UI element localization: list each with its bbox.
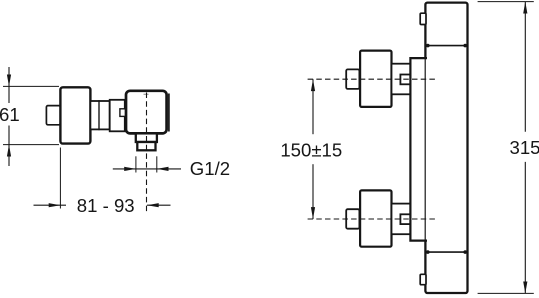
front housing strip bbox=[410, 58, 427, 241]
dimension 61 arrow down bbox=[7, 75, 11, 87]
G1/2 dimension line bbox=[113, 168, 181, 170]
bottom handle center line (dashed) bbox=[308, 218, 437, 220]
315 extension line bottom bbox=[478, 292, 534, 294]
G1/2 arrow left bbox=[157, 167, 169, 171]
bottom handle knob bbox=[346, 209, 359, 229]
svg-text:61: 61 bbox=[0, 104, 20, 125]
notch on valve body bbox=[120, 109, 127, 117]
valve body right inner edge bbox=[168, 94, 170, 132]
150 dimension line lower bbox=[312, 164, 314, 219]
dimension 61 extension line top bbox=[3, 85, 59, 87]
315 arrow up bbox=[523, 2, 527, 14]
81-93 dimension line right bbox=[147, 204, 171, 206]
svg-text:150±15: 150±15 bbox=[280, 140, 342, 161]
svg-text:G1/2: G1/2 bbox=[190, 158, 230, 179]
connector section C bbox=[110, 100, 125, 132]
dimension 61 extension line bottom bbox=[3, 144, 59, 146]
G1/2 extension line left bbox=[135, 156, 137, 172]
81-93 arrow left bbox=[147, 203, 159, 207]
bottom left tab bbox=[420, 274, 426, 284]
bottom handle button bbox=[400, 214, 410, 224]
315 dimension line upper bbox=[524, 2, 526, 132]
bottom handle mid section bbox=[392, 204, 412, 235]
315 extension line top bbox=[478, 1, 534, 3]
connector section AB bbox=[90, 101, 109, 129]
connector divider bbox=[98, 100, 100, 130]
outlet pipe G1/2 bbox=[137, 142, 155, 150]
top handle button bbox=[400, 75, 410, 85]
G1/2 arrow right bbox=[124, 167, 136, 171]
81-93 arrow right bbox=[49, 203, 61, 207]
top handle block bbox=[360, 51, 391, 107]
bottom handle block bbox=[360, 190, 391, 246]
315 arrow down bbox=[523, 282, 527, 294]
G1/2 extension line right bbox=[156, 156, 158, 172]
150 dimension line upper bbox=[312, 79, 314, 134]
outlet flange bbox=[136, 133, 157, 142]
81-93 dimension line left bbox=[34, 204, 67, 206]
bottom divider end dots bbox=[426, 250, 430, 254]
top handle mid section bbox=[392, 64, 412, 95]
faint top mark bbox=[144, 93, 149, 95]
top left tab bbox=[420, 13, 426, 24]
top handle knob bbox=[346, 69, 359, 89]
mixer bar body bbox=[425, 3, 467, 293]
center line (dashed) of outlet bbox=[146, 93, 148, 214]
81-93 extension line bbox=[59, 148, 61, 209]
valve body square bbox=[126, 91, 167, 134]
dimension 61 line lower segment bbox=[8, 126, 10, 167]
wall knob bbox=[46, 106, 60, 125]
svg-text:315: 315 bbox=[509, 137, 539, 158]
handle body (side) bbox=[60, 87, 90, 143]
top handle center line (dashed) bbox=[308, 78, 437, 80]
dimension 61 arrow up bbox=[7, 145, 11, 157]
bar left inner edge (thin) bbox=[424, 58, 426, 241]
150 arrow up bbox=[311, 79, 315, 91]
150 arrow down bbox=[311, 207, 315, 219]
dimension 61 line upper segment bbox=[8, 67, 10, 103]
top cap divider bbox=[425, 45, 467, 47]
top divider end dots bbox=[426, 44, 430, 48]
bottom cap divider bbox=[425, 251, 467, 253]
315 dimension line lower bbox=[524, 162, 526, 294]
svg-text:81 - 93: 81 - 93 bbox=[77, 195, 135, 216]
